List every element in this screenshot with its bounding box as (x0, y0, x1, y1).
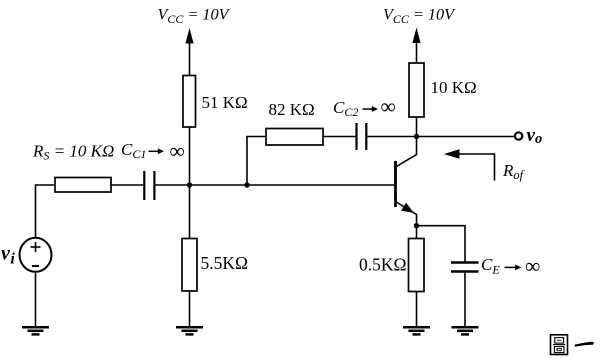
node B junction dot (187, 182, 192, 187)
resistor RS body (55, 178, 111, 193)
wire R3 to CC2 (323, 136, 357, 138)
svg-text:51 KΩ: 51 KΩ (202, 93, 248, 112)
resistor R4 5.5K body (182, 239, 197, 292)
svg-text:vi: vi (1, 243, 15, 268)
wire source bottom to ground (35, 272, 37, 328)
svg-text:CE: CE (481, 255, 500, 276)
caption "Figure 1" CJK glyph TU (drawn) (551, 335, 568, 355)
wire main base line CC1 to transistor base (154, 184, 395, 186)
caption "Figure 1" CJK glyph YI (drawn) (575, 342, 594, 347)
ground under RE (403, 327, 430, 334)
wire CC2 to collector node C (366, 136, 416, 138)
node E junction dot (emitter) (414, 223, 419, 228)
source vi circle (20, 238, 52, 272)
svg-text:10 KΩ: 10 KΩ (431, 78, 477, 97)
svg-text:∞: ∞ (381, 95, 396, 119)
wire RS to CC1 (111, 184, 144, 186)
svg-text:VCC = 10V: VCC = 10V (158, 5, 231, 26)
resistor RE 0.5K body (409, 239, 425, 292)
power VCC1 arrow (left supply) (189, 40, 191, 76)
svg-text:82 KΩ: 82 KΩ (269, 100, 315, 119)
ground under R4 (176, 327, 203, 334)
wire R4 bottom to ground (189, 291, 191, 328)
wire RE bottom to ground (416, 292, 418, 328)
wire node E to RE (416, 226, 418, 239)
svg-text:Rof: Rof (502, 161, 525, 182)
wire CE bottom to ground (464, 272, 466, 328)
svg-text:CC2: CC2 (333, 98, 358, 119)
wire node B down to R4 (189, 185, 191, 239)
node C junction dot (collector) (414, 134, 419, 139)
capacitor CC1 plates (143, 171, 145, 200)
svg-text:RS = 10 KΩ: RS = 10 KΩ (32, 141, 114, 162)
arrow Rof (pointing left into collector) (447, 154, 495, 181)
node F junction dot (feedback tap) (244, 182, 249, 187)
capacitor CC2 plates (355, 123, 357, 150)
wire R2 bottom to node C (416, 117, 418, 137)
power VCC2 arrow (right supply) (416, 40, 418, 63)
ground under CE (452, 327, 479, 334)
wire node C to output terminal (417, 136, 516, 138)
transistor Q1 base bar (394, 161, 397, 207)
transistor Q1 emitter arrowhead (401, 203, 414, 213)
capacitor CE plates (451, 261, 479, 263)
svg-text:5.5KΩ: 5.5KΩ (201, 253, 249, 273)
svg-text:0.5KΩ: 0.5KΩ (359, 254, 407, 274)
wire node F up to R3 82K (247, 137, 266, 186)
wire node E to CE (417, 226, 466, 263)
svg-text:CC1: CC1 (121, 140, 146, 161)
svg-text:∞: ∞ (525, 254, 540, 278)
source vi plus sign (31, 242, 41, 252)
ground under source vi (22, 327, 49, 334)
resistor R1 51K body (183, 76, 196, 128)
source vi minus sign (32, 265, 39, 267)
wire R1 bottom to node B (189, 127, 191, 185)
svg-text:∞: ∞ (170, 139, 185, 163)
resistor R3 82K body (266, 129, 323, 146)
transistor Q1 emitter lead (396, 202, 417, 227)
wire source top to RS (36, 185, 56, 239)
transistor Q1 collector lead (396, 137, 417, 168)
svg-text:vo: vo (527, 125, 543, 147)
svg-text:VCC = 10V: VCC = 10V (383, 5, 456, 26)
resistor R2 10K body (409, 63, 424, 117)
terminal vo open circle (515, 132, 522, 139)
